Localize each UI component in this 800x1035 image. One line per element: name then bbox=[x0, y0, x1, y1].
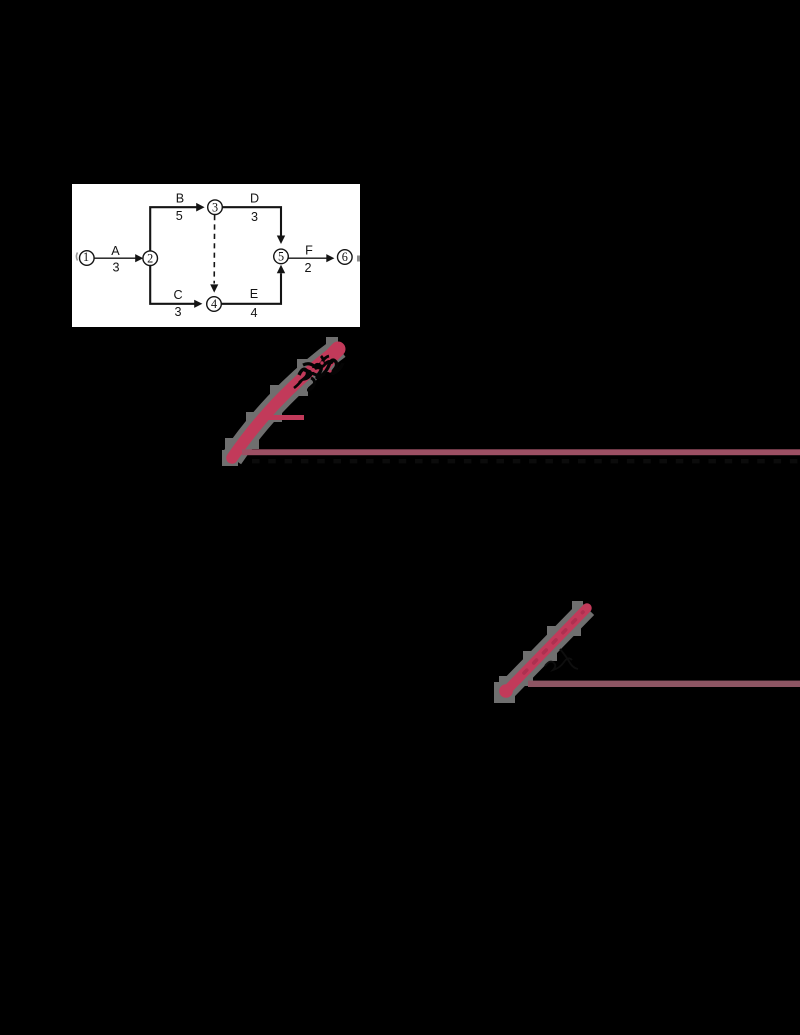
wire E: node 4 right and up to node 5 bbox=[221, 273, 281, 304]
arrowhead dummy bbox=[210, 284, 218, 292]
arrowhead E bbox=[277, 265, 285, 274]
svg-text:4: 4 bbox=[211, 297, 217, 311]
edge stub left of node 1 at panel border bbox=[76, 253, 77, 261]
svg-text:1: 1 bbox=[83, 250, 89, 264]
wire A: node 1 to node 2 bbox=[94, 257, 136, 259]
label B value 5 bbox=[176, 191, 185, 223]
label C value 3 bbox=[173, 288, 182, 319]
svg-text:2: 2 bbox=[147, 251, 153, 265]
svg-text:B: B bbox=[176, 191, 184, 205]
edge stub right of node 6 at panel border bbox=[357, 256, 360, 262]
arrowhead D bbox=[277, 236, 285, 245]
svg-text:A: A bbox=[111, 244, 120, 258]
arrowhead B bbox=[196, 203, 204, 212]
node 3 bbox=[208, 200, 223, 215]
node 2 bbox=[143, 251, 158, 266]
red slash mark 1 bbox=[232, 348, 339, 458]
svg-text:3: 3 bbox=[212, 200, 218, 214]
svg-text:F: F bbox=[305, 243, 313, 257]
red slash mark 1 halo bbox=[222, 337, 339, 466]
wire B: node 2 up and right to node 3 bbox=[150, 207, 196, 251]
svg-text:5: 5 bbox=[176, 209, 183, 223]
svg-text:3: 3 bbox=[112, 261, 119, 275]
long red underline 1 bbox=[242, 449, 800, 455]
svg-text:3: 3 bbox=[174, 305, 181, 319]
svg-text:5: 5 bbox=[278, 250, 284, 264]
label A value 3 bbox=[111, 244, 120, 274]
red check foot line (short) bbox=[264, 415, 304, 420]
black scribble over slash 1 bbox=[294, 356, 343, 390]
node 5 bbox=[274, 249, 289, 264]
node 4 bbox=[207, 297, 222, 312]
wire C: node 2 down and right to node 4 bbox=[150, 266, 194, 304]
svg-text:4: 4 bbox=[250, 306, 257, 320]
svg-text:3: 3 bbox=[251, 210, 258, 224]
white diagram panel bbox=[72, 184, 360, 327]
node 1 bbox=[80, 250, 95, 265]
label E value 4 bbox=[250, 287, 258, 320]
label F value 2 bbox=[304, 243, 313, 275]
svg-text:E: E bbox=[250, 287, 258, 301]
red speckles in scribble bbox=[311, 361, 332, 372]
faint dotted ruling under line 1 bbox=[252, 459, 800, 463]
arrowhead F bbox=[326, 254, 334, 262]
label D value 3 bbox=[250, 191, 259, 223]
red slash mark 2 halo bbox=[494, 601, 587, 703]
wire D: node 3 right and down to node 5 bbox=[222, 207, 281, 236]
svg-text:C: C bbox=[173, 288, 182, 302]
dummy activity dashed wire: node 3 to node 4 bbox=[213, 215, 215, 284]
faint dark scribble near slash 2 bbox=[545, 649, 578, 670]
svg-text:D: D bbox=[250, 191, 259, 205]
arrowhead C bbox=[194, 300, 202, 308]
arrowhead A bbox=[135, 254, 143, 262]
node 6 bbox=[338, 250, 353, 265]
red slash mark 2 bbox=[499, 608, 587, 698]
wire F: node 5 to node 6 bbox=[288, 257, 327, 259]
long red underline 2 bbox=[528, 681, 800, 687]
svg-text:6: 6 bbox=[342, 250, 348, 264]
svg-text:2: 2 bbox=[304, 261, 311, 275]
